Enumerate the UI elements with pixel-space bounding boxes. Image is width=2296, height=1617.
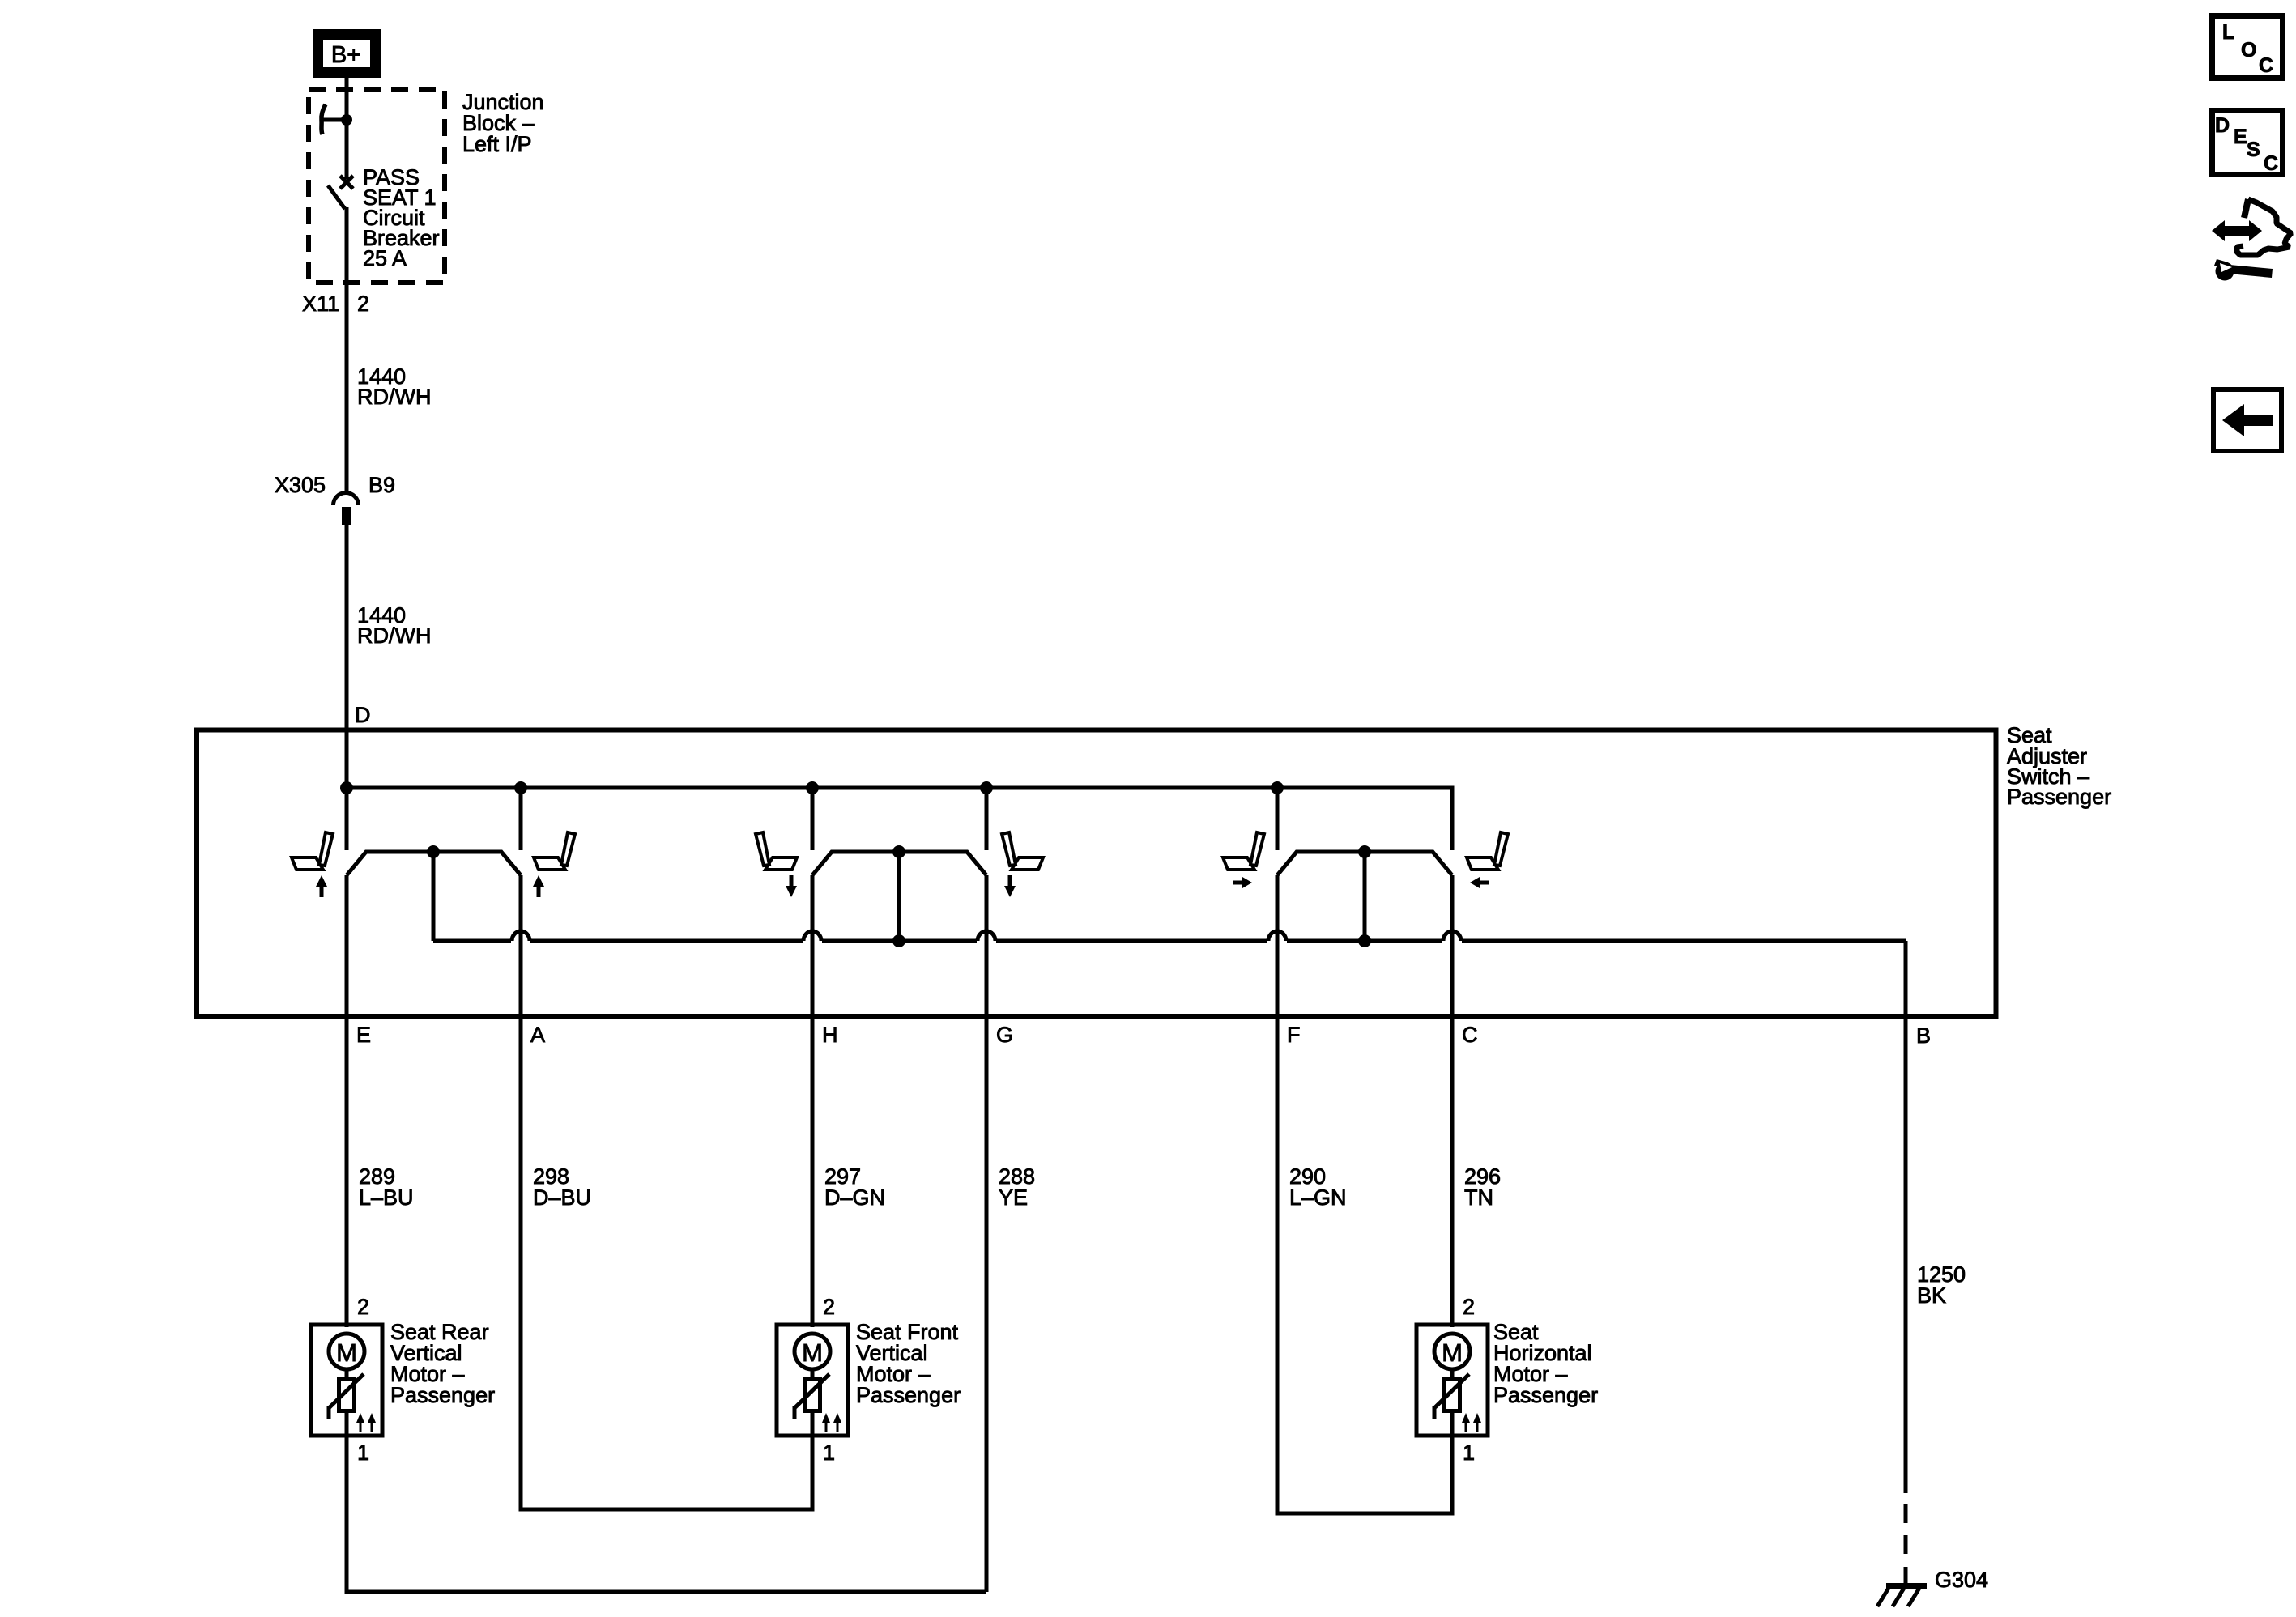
circuit breaker contact X — [340, 176, 353, 189]
svg-text:X11: X11 — [302, 291, 339, 316]
svg-text:D: D — [2215, 114, 2230, 137]
svg-text:D–BU: D–BU — [533, 1185, 591, 1210]
motor M3 Seat Horizontal Motor - Passenger — [1416, 1325, 1488, 1436]
svg-text:D–GN: D–GN — [824, 1185, 885, 1210]
junction block dashed box — [309, 90, 445, 283]
seat icon S1 right (seat rear up) — [534, 832, 575, 870]
svg-text:YE: YE — [999, 1185, 1028, 1210]
circuit breaker coil hook — [322, 104, 326, 134]
wire B+ to circuit breaker — [345, 78, 349, 179]
feed stub A column — [519, 788, 523, 850]
icon box DESC — [2213, 111, 2283, 175]
svg-text:D: D — [355, 703, 371, 727]
svg-text:F: F — [1287, 1023, 1301, 1047]
svg-text:Passenger: Passenger — [856, 1383, 961, 1407]
seat icon S3 left (seat forward) — [1223, 832, 1264, 870]
svg-text:1: 1 — [1463, 1440, 1475, 1465]
node: bus junction H column — [806, 781, 819, 794]
wire pin H to motor M2 — [811, 875, 815, 1327]
seat icon S1 left (seat rear up) — [292, 832, 333, 870]
switch S1 rear-vertical contact bridge — [347, 852, 521, 875]
svg-text:B: B — [1916, 1023, 1931, 1048]
circuit breaker blade — [328, 185, 345, 209]
wire motor M1 to G link — [347, 1436, 986, 1592]
svg-text:1: 1 — [357, 1440, 369, 1465]
seat icon S3 right (seat rearward) — [1467, 832, 1508, 870]
feed stub H column — [811, 788, 815, 850]
ground symbol G304 — [1886, 1583, 1927, 1589]
circuit breaker tick — [322, 118, 347, 122]
seat icon S2 left (seat front down) — [756, 832, 797, 870]
svg-text:C: C — [1462, 1023, 1478, 1047]
svg-text:B9: B9 — [368, 473, 395, 497]
svg-text:RD/WH: RD/WH — [357, 385, 431, 409]
svg-text:25 A: 25 A — [363, 246, 407, 270]
svg-text:E: E — [356, 1023, 371, 1047]
node: bus junction at D — [340, 781, 353, 794]
wire pin C to motor M3 — [1450, 875, 1455, 1327]
node: bus junction A column — [514, 781, 527, 794]
svg-text:G: G — [996, 1023, 1013, 1047]
connector X305 socket arc — [334, 493, 359, 506]
svg-text:TN: TN — [1464, 1185, 1493, 1210]
svg-text:2: 2 — [1463, 1295, 1475, 1319]
wire pin E to motor M1 — [345, 875, 349, 1327]
svg-text:O: O — [2241, 39, 2256, 62]
svg-text:2: 2 — [823, 1295, 835, 1319]
feed stub G column — [985, 788, 989, 850]
svg-text:C: C — [2264, 152, 2278, 175]
svg-text:BK: BK — [1917, 1283, 1946, 1308]
icon box LOC — [2213, 16, 2283, 79]
wire pin G down to E-G link — [985, 875, 989, 1592]
svg-text:Passenger: Passenger — [2007, 785, 2111, 809]
icon component-view (car panel, double arrow, wrench) — [2212, 220, 2262, 241]
node: breaker junction dot — [341, 114, 352, 126]
svg-text:M: M — [336, 1338, 357, 1367]
svg-text:L: L — [2222, 21, 2234, 44]
svg-text:G304: G304 — [1935, 1568, 1988, 1592]
connector X305 terminal — [342, 507, 351, 525]
svg-text:C: C — [2259, 54, 2273, 77]
motor M1 Seat Rear Vertical Motor - Passenger — [311, 1325, 382, 1436]
switch box Seat Adjuster Switch - Passenger — [197, 730, 1996, 1017]
svg-text:B+: B+ — [331, 42, 360, 68]
switch S3 horizontal contact bridge — [1277, 852, 1452, 875]
svg-text:Left I/P: Left I/P — [462, 132, 532, 156]
bus wire B+ feed inside switch — [347, 788, 1452, 850]
svg-text:L–GN: L–GN — [1289, 1185, 1347, 1210]
svg-text:2: 2 — [357, 291, 369, 316]
node: bus junction G column — [980, 781, 993, 794]
svg-text:H: H — [822, 1023, 838, 1047]
wire 1250 BK dashed to ground — [1904, 1504, 1908, 1523]
svg-text:2: 2 — [357, 1295, 369, 1319]
node: bus junction F column — [1271, 781, 1284, 794]
svg-text:S: S — [2247, 138, 2260, 161]
wire breaker to connector X305 — [345, 207, 349, 492]
seat icon S2 right (seat front down) — [1002, 832, 1043, 870]
svg-text:E: E — [2234, 126, 2247, 148]
wire pin F down and across to C — [1277, 875, 1452, 1513]
svg-text:Passenger: Passenger — [390, 1383, 495, 1407]
icon box back-arrow — [2213, 389, 2281, 451]
svg-text:L–BU: L–BU — [359, 1185, 414, 1210]
svg-text:RD/WH: RD/WH — [357, 623, 431, 648]
svg-text:1: 1 — [823, 1440, 835, 1465]
motor M2 Seat Front Vertical Motor - Passenger — [777, 1325, 848, 1436]
power symbol B+ — [318, 35, 376, 73]
wire pin A down and across to H — [521, 875, 812, 1509]
svg-text:A: A — [530, 1023, 545, 1047]
wire X305 to switch box (node D) — [345, 525, 349, 850]
feed stub F column — [1276, 788, 1280, 850]
svg-text:Passenger: Passenger — [1493, 1383, 1598, 1407]
svg-text:M: M — [1442, 1338, 1463, 1367]
switch S2 front-vertical contact bridge — [812, 852, 986, 875]
svg-text:X305: X305 — [275, 473, 326, 497]
svg-text:M: M — [802, 1338, 823, 1367]
return wire to pin B with hops — [433, 939, 511, 943]
